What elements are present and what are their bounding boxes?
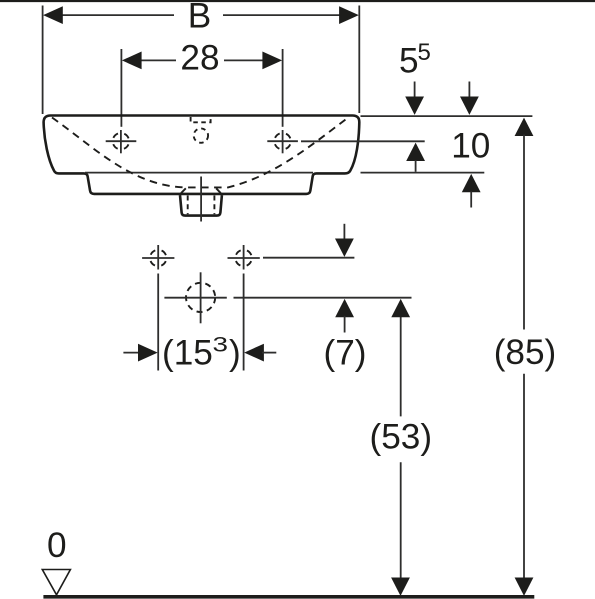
drain centerline vertical upper	[200, 177, 202, 222]
bowl funnel dash left	[181, 188, 186, 193]
dimension 5.5 upper arrow	[405, 97, 424, 115]
dimension 85 line upper segment	[523, 135, 525, 330]
dimension 15.3 left arrow	[138, 344, 158, 362]
faucet hole left cross vertical	[120, 130, 122, 153]
svg-text:5: 5	[399, 41, 419, 80]
mounting bolt left cross horizontal	[142, 257, 174, 259]
mounting bolt right extension line down	[243, 274, 245, 371]
dimension 28 extension line right	[282, 49, 284, 127]
faucet hole right cross vertical	[282, 130, 284, 153]
svg-text:): )	[229, 333, 241, 372]
dimension B line left segment	[60, 14, 174, 16]
mounting bolt right dashed circle	[235, 250, 251, 266]
bowl funnel dash right	[216, 188, 221, 193]
top border line	[0, 0, 595, 2]
faucet hole right cross horizontal	[267, 140, 298, 142]
drain pipe dashed circle	[186, 283, 215, 312]
drain pipe centerline horizontal left	[164, 297, 226, 299]
bolt centerline extension to right	[263, 257, 354, 259]
svg-text:(85): (85)	[494, 333, 557, 372]
dimension 53 lower arrow	[391, 578, 410, 596]
datum level triangle	[42, 570, 70, 595]
svg-text:5: 5	[418, 39, 431, 66]
svg-text:0: 0	[47, 526, 67, 565]
basin bowl dashed curve	[52, 117, 350, 188]
dimension 28 line right segment	[224, 59, 265, 61]
dimension 7 lower arrow	[335, 299, 354, 317]
svg-text:28: 28	[180, 39, 219, 78]
faucet hole left dashed circle	[113, 133, 129, 149]
mounting bolt left extension line down	[157, 274, 159, 371]
svg-text:B: B	[188, 0, 211, 35]
dimension 5.5 lower arrow	[406, 143, 425, 161]
dimension B line right segment	[223, 14, 342, 16]
svg-text:(15: (15	[162, 333, 213, 372]
faucet hole right dashed circle	[274, 133, 290, 149]
dimension B arrow right	[339, 6, 359, 24]
dimension B arrow left	[43, 6, 63, 24]
trap inner dashed line right	[213, 196, 215, 215]
svg-text:3: 3	[213, 334, 229, 357]
dimension 7 lower arrow stem	[344, 316, 346, 333]
drain pipe centerline horizontal right	[234, 297, 412, 299]
svg-text:10: 10	[451, 126, 490, 165]
dimension 5.5 lower arrow stem	[415, 160, 417, 172]
drain pipe centerline vertical	[200, 272, 202, 323]
dimension 7 upper arrow	[335, 239, 354, 257]
svg-text:(53): (53)	[370, 417, 433, 456]
overflow slot dashed outline	[191, 117, 211, 122]
trap outline	[180, 195, 222, 216]
dimension 15.3 right arrow	[244, 344, 264, 362]
washbasin outline	[44, 116, 360, 194]
dimension 85 upper arrow	[515, 118, 534, 136]
dimension 15.3 right tail	[262, 352, 276, 354]
dimension 28 line left segment	[139, 59, 176, 61]
dimension 28 extension line left	[120, 49, 122, 127]
overflow hole dashed circle	[194, 128, 208, 142]
mounting bolt right cross horizontal	[228, 257, 260, 259]
dimension 10 lower arrow	[462, 174, 481, 192]
faucet centerline extension to right	[301, 140, 425, 142]
dimension 10 upper arrow stem	[468, 82, 470, 99]
dimension 5.5 upper arrow stem	[414, 82, 416, 99]
dimension 15.3 left tail	[123, 352, 140, 354]
trap inner dashed line left	[187, 196, 189, 215]
dimension B extension line left	[42, 6, 44, 115]
dimension 7 upper arrow stem	[343, 224, 345, 240]
mounting bolt right cross vertical	[243, 245, 245, 270]
dimension 28 arrow left	[122, 52, 142, 70]
mounting bolt left cross vertical	[157, 245, 159, 270]
dimension 85 lower arrow	[515, 578, 534, 596]
rim top extension line to right	[361, 115, 533, 117]
dimension 10 upper arrow	[460, 97, 479, 115]
faucet hole left cross horizontal	[106, 140, 137, 142]
svg-text:(7): (7)	[323, 333, 366, 372]
floor line	[43, 595, 534, 599]
basin shelf front edge line	[85, 172, 313, 174]
shelf extension line to right	[361, 172, 485, 174]
dimension 53 upper arrow	[391, 299, 410, 317]
dimension 28 arrow right	[262, 52, 282, 70]
dimension 85 line lower segment	[523, 374, 525, 580]
dimension 53 line lower segment	[400, 462, 402, 579]
mounting bolt left dashed circle	[150, 250, 166, 266]
dimension B extension line right	[358, 6, 360, 114]
dimension 10 lower arrow stem	[470, 191, 472, 207]
dimension 53 line upper segment	[400, 317, 402, 417]
